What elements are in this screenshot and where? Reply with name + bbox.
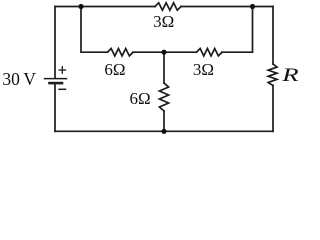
svg-text:3Ω: 3Ω: [153, 12, 174, 31]
junction node dot top-right: [250, 4, 255, 9]
wire node B to 3ohm (middle): [164, 51, 197, 53]
resistor R3 6ohm (middle left): [108, 49, 134, 56]
resistor R (right edge): [268, 64, 277, 86]
wire right edge lower (R to bottom-right corner): [272, 86, 274, 132]
wire node A down to middle branch: [81, 7, 108, 53]
battery V1 short plate (-): [50, 82, 63, 85]
resistor R4 3ohm (middle right): [197, 49, 223, 56]
junction node dot bottom: [161, 129, 166, 134]
wire left edge lower (battery - terminal to bottom-left corner): [54, 84, 56, 131]
resistor R5 6ohm (vertical middle): [159, 83, 168, 111]
wire top-left to top 3-ohm resistor: [55, 6, 155, 8]
resistor R2 3ohm (top): [155, 3, 181, 10]
wire node B down to vertical 6ohm: [163, 52, 165, 83]
junction node dot middle: [161, 50, 166, 55]
junction node dot top-left: [78, 4, 83, 9]
svg-text:3Ω: 3Ω: [193, 60, 214, 79]
svg-text:R: R: [281, 65, 299, 86]
wire top 3-ohm to top-right corner: [181, 6, 273, 8]
wire right edge upper (top-right corner down to R): [272, 7, 274, 65]
wire 3ohm to node C up to top wire: [222, 7, 253, 53]
battery plus sign: [59, 67, 65, 73]
svg-text:30 V: 30 V: [2, 69, 36, 89]
wire left edge upper (battery + terminal to top-left corner): [54, 7, 56, 79]
wire 6ohm to node B: [133, 51, 164, 53]
svg-text:6Ω: 6Ω: [130, 89, 151, 108]
battery minus sign: [59, 88, 65, 90]
wire vertical 6ohm to bottom node: [163, 111, 165, 131]
svg-text:6Ω: 6Ω: [104, 60, 125, 79]
bottom wire: [55, 130, 273, 132]
battery V1 long plate (+): [45, 78, 67, 80]
